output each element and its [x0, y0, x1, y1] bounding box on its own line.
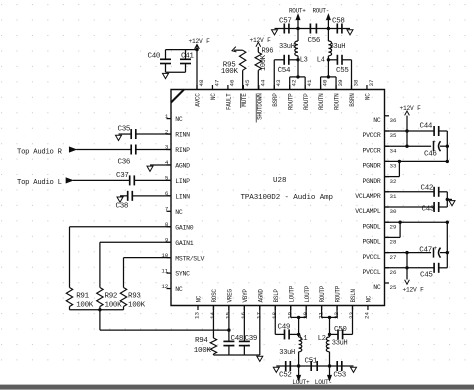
svg-text:33uH: 33uH — [279, 43, 295, 51]
pin 12 NC — [167, 288, 172, 290]
svg-text:C43: C43 — [422, 206, 435, 214]
svg-text:C38: C38 — [116, 202, 129, 210]
+12V F bottom right — [406, 253, 408, 280]
pin 13 NC — [197, 306, 199, 311]
svg-text:PVCCR: PVCCR — [362, 147, 380, 154]
wire top snubber rail — [275, 28, 299, 30]
svg-text:GAIN0: GAIN0 — [175, 224, 193, 231]
svg-text:C58: C58 — [332, 18, 345, 26]
capacitor C49 — [275, 333, 284, 335]
svg-text:L4: L4 — [317, 57, 325, 65]
svg-text:R94: R94 — [195, 337, 208, 345]
svg-text:C39: C39 — [245, 335, 258, 343]
resistor R92 — [100, 241, 171, 243]
capacitor C50 — [330, 333, 339, 335]
inductor L1 33uH — [298, 334, 300, 337]
svg-text:U28: U28 — [273, 177, 287, 185]
pin 34 PVCCR — [385, 145, 390, 147]
svg-text:42: 42 — [291, 79, 298, 86]
svg-text:C54: C54 — [278, 67, 291, 75]
capacitor C48 — [228, 306, 230, 342]
capacitor C39 — [243, 306, 245, 342]
pin 43 BSRP — [273, 85, 275, 90]
capacitor C51 — [310, 361, 312, 371]
svg-text:100K: 100K — [76, 302, 94, 310]
svg-text:23: 23 — [348, 312, 355, 319]
pin 29 PGNDL — [385, 221, 390, 223]
svg-text:L1: L1 — [300, 335, 308, 343]
svg-text:33uH: 33uH — [330, 43, 346, 51]
svg-text:18: 18 — [271, 312, 278, 319]
svg-text:100K: 100K — [105, 302, 123, 310]
svg-text:C41: C41 — [181, 53, 194, 61]
pin 17 AGND — [259, 306, 261, 311]
wire pin35 PVCCR — [385, 130, 435, 132]
svg-text:C51: C51 — [305, 357, 318, 365]
svg-text:ROUTP: ROUTP — [303, 93, 310, 110]
inductor L4 33uH — [327, 56, 329, 60]
svg-text:L3: L3 — [300, 57, 308, 65]
ground flag left of C38 — [117, 197, 123, 202]
wire bottom snubber rail — [276, 365, 298, 367]
svg-text:ROUTP: ROUTP — [287, 93, 294, 110]
svg-text:14: 14 — [209, 312, 216, 319]
svg-text:NC: NC — [196, 295, 203, 302]
capacitor C55 — [328, 59, 337, 61]
wire AGND rail — [213, 354, 259, 356]
svg-text:SYNC: SYNC — [175, 271, 190, 278]
ground flag left of C35 — [116, 135, 122, 140]
wire C42/C43 bus — [446, 192, 448, 207]
pin 16 VBYP — [243, 306, 245, 311]
svg-text:+12V F: +12V F — [400, 105, 422, 112]
pin 35 PVCCR — [385, 130, 390, 132]
pin 4 AGND — [167, 164, 172, 166]
node ROUT- — [327, 20, 329, 29]
svg-text:ROUTP: ROUTP — [319, 285, 326, 302]
wire drop LOUTP node — [298, 317, 300, 334]
capacitor C36 — [76, 149, 131, 151]
wire to ground flag — [447, 198, 452, 200]
wire right bus (C44/C46 to PGNDR) — [446, 131, 448, 161]
svg-text:37: 37 — [368, 79, 375, 86]
svg-text:R91: R91 — [76, 292, 89, 300]
wire gain resistor bottoms — [70, 309, 124, 311]
svg-text:28: 28 — [390, 239, 397, 246]
pin 36 NC — [385, 115, 390, 117]
+12V power arrow (R96) — [256, 42, 261, 46]
svg-text:48: 48 — [198, 79, 205, 86]
svg-text:FAULT: FAULT — [226, 93, 233, 110]
pin 1 NC — [167, 118, 172, 120]
svg-text:33uH: 33uH — [332, 340, 348, 348]
wire pins 40/39 ROUTN tie — [320, 77, 322, 90]
inductor L2 33uH — [329, 334, 331, 337]
svg-text:C36: C36 — [118, 159, 131, 167]
pin 40 ROUTN — [320, 85, 322, 90]
svg-text:R93: R93 — [128, 292, 141, 300]
svg-text:L2: L2 — [318, 335, 326, 343]
svg-text:C49: C49 — [278, 324, 291, 332]
svg-text:MUTE: MUTE — [241, 93, 248, 107]
svg-text:38: 38 — [352, 79, 359, 86]
svg-text:SHUTDOWN: SHUTDOWN — [256, 93, 263, 120]
capacitor C41 — [185, 50, 187, 60]
pin 46 FAULT — [227, 85, 229, 90]
svg-text:ROUTN: ROUTN — [318, 93, 325, 110]
capacitor C54 — [274, 59, 284, 61]
pin 2 RINN — [167, 133, 172, 135]
wire pin29 PGNDL — [385, 221, 448, 223]
wire pin23 BSLN down — [352, 306, 354, 335]
svg-text:BSLP: BSLP — [273, 289, 280, 303]
wire riser ROUTP node to C54/L3 — [297, 60, 299, 77]
wire to VREG — [99, 310, 101, 330]
pin 37 NC — [366, 85, 368, 90]
svg-text:33uH: 33uH — [279, 349, 295, 357]
inductor L3 33uH — [297, 56, 299, 60]
svg-text:LINN: LINN — [175, 193, 190, 200]
pin 19 LOUTP — [290, 306, 292, 311]
wire right bus (PGNDL to C45) — [446, 222, 448, 268]
wire pin31 VCLAMPR — [385, 191, 435, 193]
ground pin4 AGND — [150, 164, 171, 166]
wire pin34 PVCCR — [385, 145, 432, 147]
pin 32 PGNDR — [385, 176, 390, 178]
svg-text:C56: C56 — [308, 37, 321, 45]
wire pin26 PVCCL — [385, 267, 435, 269]
pin 41 ROUTP — [304, 85, 306, 90]
pin 45 MUTE — [242, 85, 244, 90]
wire pin27 PVCCL — [385, 252, 432, 254]
wire drop to L2/C50 — [329, 317, 331, 334]
pin 5 LINP — [167, 179, 172, 181]
capacitor C37 — [73, 179, 130, 181]
svg-text:1: 1 — [165, 113, 169, 120]
svg-text:36: 36 — [390, 117, 397, 124]
svg-text:44: 44 — [260, 79, 267, 86]
pin 14 ROSC — [212, 306, 214, 311]
svg-text:NC: NC — [373, 117, 381, 124]
svg-text:Top Audio L: Top Audio L — [17, 179, 62, 187]
svg-text:C53: C53 — [333, 371, 346, 379]
svg-text:ROUT-: ROUT- — [313, 8, 330, 15]
pin 30 VCLAMPL — [385, 206, 390, 208]
svg-text:+: + — [432, 139, 436, 146]
svg-text:+12V F: +12V F — [250, 37, 272, 44]
svg-text:45: 45 — [244, 79, 251, 86]
svg-text:RINN: RINN — [175, 132, 190, 139]
svg-text:AGND: AGND — [175, 163, 190, 170]
svg-text:VBYP: VBYP — [242, 289, 249, 303]
wire pins 19/20 LOUTP tie — [290, 306, 292, 318]
+12V F power arrow (AVCC) — [195, 45, 200, 49]
svg-text:NC: NC — [175, 209, 183, 216]
pin 26 PVCCL — [385, 267, 390, 269]
svg-text:ROUT+: ROUT+ — [289, 8, 306, 15]
svg-text:BSRN: BSRN — [349, 93, 356, 107]
capacitor C58 — [336, 24, 338, 34]
svg-text:NC: NC — [365, 93, 372, 100]
svg-text:15: 15 — [225, 312, 232, 319]
svg-text:AGND: AGND — [257, 289, 264, 303]
svg-text:Top Audio R: Top Audio R — [17, 148, 63, 156]
pin 6 LINN — [167, 195, 172, 197]
pin 8 GAIN0 — [167, 226, 172, 228]
svg-text:C55: C55 — [336, 67, 349, 75]
wire pin18 BSLP down — [274, 306, 276, 335]
svg-text:C44: C44 — [420, 122, 433, 130]
pin 48 AVCC — [196, 85, 198, 90]
svg-text:30: 30 — [390, 208, 397, 215]
pin 3 RINP — [167, 149, 172, 151]
svg-text:+12V F: +12V F — [403, 287, 425, 294]
svg-text:7: 7 — [165, 206, 169, 213]
svg-text:+: + — [434, 245, 438, 252]
svg-text:39: 39 — [337, 79, 344, 86]
svg-text:PGNDR: PGNDR — [362, 178, 380, 185]
pin 20 LOUTP — [305, 306, 307, 311]
wire pins29/28 tie — [399, 222, 401, 237]
pin 24 NC — [367, 306, 369, 311]
svg-text:43: 43 — [275, 79, 282, 86]
svg-text:11: 11 — [161, 267, 168, 274]
pin 23 BSLN — [352, 306, 354, 311]
capacitor C40 — [165, 50, 167, 60]
svg-text:C57: C57 — [279, 18, 292, 26]
svg-text:PVCCL: PVCCL — [362, 254, 380, 261]
+12V F top right — [405, 111, 410, 115]
svg-text:C35: C35 — [118, 125, 131, 133]
pin 11 SYNC — [167, 272, 172, 274]
pin 42 ROUTP — [289, 85, 291, 90]
svg-text:NC: NC — [373, 284, 381, 291]
svg-text:TPA3100D2 - Audio Amp: TPA3100D2 - Audio Amp — [241, 194, 333, 202]
capacitor C56 — [309, 24, 311, 34]
svg-text:33: 33 — [390, 163, 397, 170]
wire pins 21/22 tie — [321, 306, 323, 318]
svg-text:26: 26 — [390, 269, 397, 276]
svg-text:NC: NC — [366, 295, 373, 302]
pin 38 BSRN — [351, 85, 353, 90]
pin 18 BSLP — [274, 306, 276, 311]
wire pins33/32 tie — [398, 161, 400, 176]
svg-text:100K: 100K — [221, 68, 239, 76]
capacitor C52 — [285, 361, 287, 371]
svg-text:R96: R96 — [262, 47, 274, 55]
svg-text:17: 17 — [256, 312, 263, 319]
svg-text:27: 27 — [390, 254, 397, 261]
svg-text:47: 47 — [213, 79, 220, 86]
svg-text:VCLAMPL: VCLAMPL — [355, 208, 381, 215]
pin 33 PGNDR — [385, 160, 390, 162]
svg-text:BSLN: BSLN — [350, 289, 357, 303]
wire pin33 PGNDR — [385, 160, 448, 162]
pin 31 VCLAMPR — [385, 191, 390, 193]
op-amp U28 TPA3100D2 body — [171, 90, 385, 306]
ground flag left of C57 — [272, 30, 278, 35]
capacitor C43 — [433, 202, 435, 212]
resistor R95 — [242, 70, 244, 89]
svg-text:46: 46 — [229, 79, 236, 86]
svg-text:C37: C37 — [116, 172, 129, 180]
svg-text:RINP: RINP — [175, 147, 190, 154]
resistor R94 — [212, 306, 214, 339]
ground flag right of C53 — [351, 367, 357, 372]
svg-text:+12V F: +12V F — [189, 38, 211, 45]
wire pin48 AVCC to +12V — [196, 45, 198, 90]
svg-text:C42: C42 — [421, 184, 434, 192]
capacitor C45 — [433, 263, 435, 273]
node ROUT+ — [297, 20, 299, 29]
capacitor C46 (polarized) — [433, 141, 435, 151]
wire pins 42/41 ROUTP tie — [289, 77, 291, 90]
ground flag pin17 AGND — [257, 356, 263, 361]
svg-text:LOUTP: LOUTP — [288, 285, 295, 302]
capacitor C42 — [433, 187, 435, 197]
svg-text:NC: NC — [210, 93, 217, 100]
svg-text:40: 40 — [321, 79, 328, 86]
svg-text:25: 25 — [390, 284, 397, 291]
svg-text:GAIN1: GAIN1 — [175, 240, 193, 247]
capacitor C44 — [433, 126, 435, 136]
wire pin30 VCLAMPL — [385, 206, 435, 208]
ground flag below C40 — [163, 73, 169, 78]
svg-text:VCLAMPR: VCLAMPR — [355, 193, 381, 200]
svg-text:31: 31 — [390, 193, 397, 200]
ground flag left of C52 — [273, 367, 279, 372]
pin 44 SHUTDOWN — [258, 85, 260, 90]
pin 47 NC — [211, 85, 213, 90]
svg-text:ROSC: ROSC — [211, 289, 218, 303]
pin 9 GAIN1 — [167, 241, 172, 243]
capacitor C53 — [336, 361, 338, 371]
pin 22 ROUTP — [336, 306, 338, 311]
svg-text:MSTR/SLV: MSTR/SLV — [175, 255, 204, 262]
wire C55 to pin38 BSRN — [351, 60, 353, 90]
svg-text:12: 12 — [161, 283, 168, 290]
wire riser ROUTN node to C55/L4 — [327, 60, 329, 77]
pin-1 chamfer mark — [171, 90, 184, 103]
svg-text:34: 34 — [390, 147, 397, 154]
svg-text:41: 41 — [306, 79, 313, 86]
svg-text:16: 16 — [240, 312, 247, 319]
node LOUT- — [329, 366, 331, 375]
svg-text:100K: 100K — [194, 347, 212, 355]
svg-text:VREG: VREG — [227, 289, 234, 303]
svg-text:C46: C46 — [424, 150, 437, 158]
pin 7 NC — [167, 210, 172, 212]
svg-text:C40: C40 — [148, 53, 161, 61]
svg-text:LINP: LINP — [175, 178, 190, 185]
ground flag right of C58 — [347, 30, 353, 35]
svg-text:PGNDL: PGNDL — [362, 239, 380, 246]
pin 25 NC — [385, 282, 390, 284]
svg-text:NC: NC — [175, 286, 183, 293]
svg-text:C47: C47 — [419, 246, 432, 254]
svg-text:13: 13 — [194, 312, 201, 319]
capacitor C47 (polarized) — [433, 248, 435, 258]
wire +12V to PVCCR — [406, 116, 408, 147]
svg-text:PVCCR: PVCCR — [362, 132, 380, 139]
svg-text:PGNDR: PGNDR — [362, 163, 380, 170]
svg-text:C50: C50 — [334, 326, 347, 334]
svg-text:100K: 100K — [128, 302, 146, 310]
svg-text:PGNDL: PGNDL — [362, 223, 380, 230]
svg-text:100K: 100K — [260, 54, 268, 71]
resistor R93 — [124, 257, 172, 259]
wire +12V rail to C40/C41 — [166, 49, 198, 51]
node LOUT+ — [298, 366, 300, 375]
svg-text:29: 29 — [390, 223, 397, 230]
wire C40/C41 bottoms — [166, 71, 186, 73]
svg-text:35: 35 — [390, 132, 397, 139]
pin 27 PVCCL — [385, 252, 390, 254]
ground flag C42/C43 — [449, 201, 455, 206]
svg-text:PVCCL: PVCCL — [362, 269, 380, 276]
svg-text:C45: C45 — [420, 271, 433, 279]
pin 39 ROUTN — [335, 85, 337, 90]
svg-text:BSRP: BSRP — [272, 93, 279, 107]
svg-text:LOUTP: LOUTP — [304, 285, 311, 302]
pin 10 MSTR/SLV — [167, 257, 172, 259]
pin 15 VREG — [228, 306, 230, 311]
svg-text:AVCC: AVCC — [195, 93, 202, 107]
svg-text:R92: R92 — [105, 292, 118, 300]
pin 28 PGNDL — [385, 236, 390, 238]
resistor R96 — [257, 70, 259, 89]
svg-text:C52: C52 — [279, 371, 292, 379]
flag arrow at R95 top — [232, 47, 236, 52]
svg-text:32: 32 — [390, 178, 397, 185]
svg-text:NC: NC — [175, 116, 183, 123]
resistor R91 — [70, 226, 172, 228]
pin 21 ROUTP — [321, 306, 323, 311]
wire pin43 BSRP up — [273, 60, 275, 90]
capacitor C57 — [283, 24, 285, 34]
svg-text:24: 24 — [364, 312, 371, 319]
svg-text:ROUTP: ROUTP — [335, 285, 342, 302]
svg-text:ROUTN: ROUTN — [334, 93, 341, 110]
